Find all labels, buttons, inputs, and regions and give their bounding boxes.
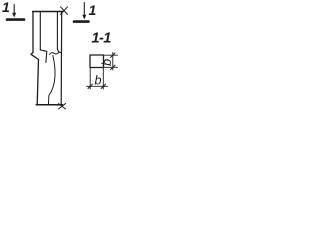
vertical dimension line [112,53,114,71]
svg-text:1-1: 1-1 [92,31,112,47]
gauge right edge below neck [48,56,55,105]
specimen left edge with shoulder flare and taper to gauge [31,12,39,105]
oblique arrow ticks on vertical dimension [111,53,115,70]
section marker 1 (left): thick cut-plane bar [7,18,24,21]
rib cross mark at specimen bottom-right corner [58,104,65,110]
section marker 1 (left): view-direction arrow [12,5,16,18]
specimen inner line (right) with hook [57,12,59,52]
specimen inner line (left) with weld step [40,12,47,63]
svg-text:b: b [100,59,114,66]
horizontal dimension line [87,85,108,87]
weld tilde squiggle at neck [50,52,62,54]
extension lines to the right [104,55,118,67]
oblique arrow ticks on horizontal dimension [88,84,106,88]
specimen bottom edge [36,104,62,106]
rib cross mark at specimen top-right corner [61,7,68,15]
svg-text:1: 1 [2,0,10,15]
specimen right edge [60,12,63,105]
specimen top edge [33,11,63,13]
section marker 1 (right): view-direction arrow [82,3,86,20]
section 1-1 view: square outline b x b [90,55,104,68]
section marker 1 (right): thick cut-plane bar [74,20,89,23]
svg-text:1: 1 [89,2,97,18]
extension lines downward [90,68,103,90]
svg-text:b: b [95,74,102,88]
